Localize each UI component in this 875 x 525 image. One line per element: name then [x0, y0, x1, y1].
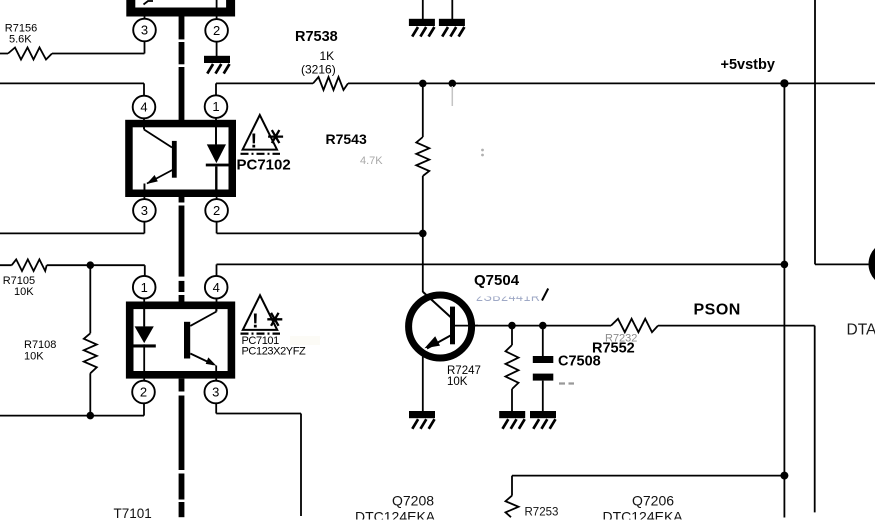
svg-text:(3216): (3216)	[301, 63, 336, 77]
svg-text:R7552: R7552	[592, 341, 635, 357]
svg-text:Q7504: Q7504	[474, 272, 520, 289]
svg-text:PSON: PSON	[694, 302, 741, 319]
svg-text:R7538: R7538	[295, 29, 338, 45]
svg-text:3: 3	[141, 23, 148, 38]
svg-text:4: 4	[140, 100, 147, 115]
svg-text:4.7K: 4.7K	[360, 155, 383, 167]
svg-text:4: 4	[213, 280, 220, 295]
svg-text:!: !	[251, 131, 258, 153]
svg-text:3: 3	[141, 203, 148, 218]
svg-text:R7253: R7253	[525, 507, 559, 519]
svg-text:+5vstby: +5vstby	[721, 57, 775, 73]
svg-text:Q7208: Q7208	[392, 493, 434, 509]
svg-text:1K: 1K	[320, 49, 335, 63]
svg-text:R7247: R7247	[447, 365, 481, 377]
svg-text:2: 2	[213, 23, 220, 38]
svg-text:!: !	[252, 311, 259, 333]
svg-text:10K: 10K	[447, 376, 468, 388]
svg-text:10K: 10K	[24, 350, 44, 362]
svg-text:PC123X2YFZ: PC123X2YFZ	[242, 346, 307, 358]
svg-text:3: 3	[212, 385, 219, 400]
svg-text:2: 2	[140, 385, 147, 400]
svg-text:5.6K: 5.6K	[9, 34, 32, 46]
svg-text:R7543: R7543	[326, 131, 367, 147]
svg-text:PC7102: PC7102	[237, 157, 291, 174]
svg-text:1: 1	[212, 99, 219, 114]
svg-text:10K: 10K	[14, 286, 34, 298]
svg-text:R7108: R7108	[24, 339, 56, 351]
svg-text:T7101: T7101	[114, 506, 152, 521]
svg-text:2: 2	[213, 203, 220, 218]
svg-text:1: 1	[141, 280, 148, 295]
svg-text:DTA: DTA	[847, 322, 875, 339]
svg-text:Q7206: Q7206	[632, 493, 674, 509]
